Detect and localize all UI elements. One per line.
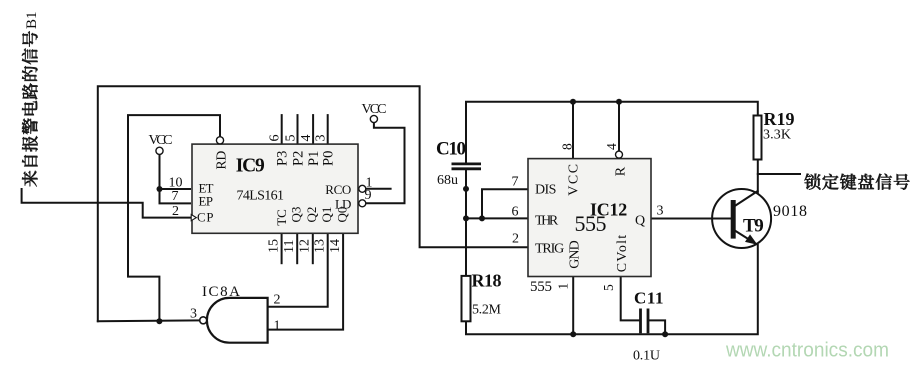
svg-text:15: 15 xyxy=(267,239,282,253)
wire: 555 pin 4 R drop xyxy=(618,102,620,151)
svg-text:3.3K: 3.3K xyxy=(763,128,791,143)
IC9 LD pin circle xyxy=(359,200,366,207)
svg-text:Q1: Q1 xyxy=(319,207,334,223)
svg-text:3: 3 xyxy=(657,204,664,219)
svg-text:B1: B1 xyxy=(24,11,40,29)
svg-text:3: 3 xyxy=(314,135,329,142)
node DIS-THR junction xyxy=(479,215,485,221)
T9 emitter arrow xyxy=(745,234,758,244)
wire: 555 VCC top rail xyxy=(466,102,758,163)
wire: NAND output node to RD loop xyxy=(128,115,220,321)
svg-text:DIS: DIS xyxy=(535,182,556,197)
svg-text:GND: GND xyxy=(567,240,582,268)
wire: IC9 pin 13 (Q1) to NAND input 2 xyxy=(268,233,328,306)
wire: bottom ground rail xyxy=(466,245,758,334)
op-amp U2: NAND gate IC8A (mirrored, output left) xyxy=(207,298,268,343)
svg-text:4: 4 xyxy=(299,135,314,142)
wire: C10 / R18 column xyxy=(465,170,467,276)
svg-text:5: 5 xyxy=(601,284,616,291)
svg-text:7: 7 xyxy=(512,175,519,190)
svg-text:2: 2 xyxy=(512,232,519,247)
wire: keyboard-lock signal output xyxy=(758,173,800,175)
svg-text:7: 7 xyxy=(172,189,179,204)
svg-text:VCC: VCC xyxy=(362,102,387,117)
wire: 555 pin 8 VCC drop xyxy=(572,102,574,159)
wire: IC9 pin 3 (P0) xyxy=(327,115,329,144)
wire: NAND output node up and across top to 555 TRIG xyxy=(98,86,527,321)
op-amp U1: IC9 74LS161 counter body xyxy=(192,144,358,233)
IC9 RD inverter circle xyxy=(216,137,223,144)
svg-text:9018: 9018 xyxy=(773,203,807,220)
wire: IC9 pin 14 (Q0) to NAND input 1 xyxy=(268,233,344,329)
node ground rail GND junction xyxy=(570,331,576,337)
svg-text:5: 5 xyxy=(284,135,299,142)
svg-text:RD: RD xyxy=(213,150,228,169)
svg-text:Q2: Q2 xyxy=(304,207,319,223)
svg-text:VCC: VCC xyxy=(567,164,582,196)
node ET/VCC junction xyxy=(157,186,163,192)
wire: C11 to ground rail xyxy=(649,320,666,334)
svg-text:THR: THR xyxy=(535,214,559,229)
wire: input signal B1 to CP xyxy=(22,189,190,218)
svg-text:IC8A: IC8A xyxy=(202,284,240,300)
wire: LD pin 9 to VCC xyxy=(366,123,405,204)
node NAND output junction xyxy=(156,318,162,324)
svg-text:13: 13 xyxy=(313,239,328,253)
svg-text:Q: Q xyxy=(635,213,645,228)
wire: 555 Q output to T9 base xyxy=(652,218,731,220)
svg-text:T9: T9 xyxy=(743,215,764,236)
svg-text:IC9: IC9 xyxy=(236,156,265,177)
svg-text:ET: ET xyxy=(199,181,214,195)
IC8A output bubble xyxy=(200,317,207,324)
node VCC rail pin8 junction xyxy=(570,99,576,105)
svg-text:TRIG: TRIG xyxy=(535,242,564,257)
wire: 555 pin 1 GND drop xyxy=(572,277,574,335)
node C10-DIS column junction xyxy=(463,186,469,192)
wire: IC9 pin 12 (Q2) stub xyxy=(312,233,314,263)
svg-text:P0: P0 xyxy=(321,151,337,166)
node input label: vertical Chinese text (signal B1 from alarm circuit) xyxy=(22,11,40,186)
svg-text:Q3: Q3 xyxy=(289,207,304,223)
svg-text:555: 555 xyxy=(530,279,552,295)
wire: IC9 pin 4 (P1) xyxy=(312,115,314,144)
svg-text:P1: P1 xyxy=(306,151,322,166)
wire: IC9 pin 6 (P3) xyxy=(281,115,283,144)
svg-text:1: 1 xyxy=(274,319,281,334)
svg-text:www.cntronics.com: www.cntronics.com xyxy=(725,340,889,362)
svg-text:P3: P3 xyxy=(275,151,291,166)
svg-text:11: 11 xyxy=(282,240,297,253)
svg-text:VCC: VCC xyxy=(149,133,173,148)
svg-text:TC: TC xyxy=(274,209,289,226)
svg-text:C11: C11 xyxy=(634,288,664,307)
wire: NAND output horizontal xyxy=(98,319,200,322)
svg-text:CVolt: CVolt xyxy=(615,235,630,272)
resistor R18 xyxy=(462,276,471,321)
svg-text:12: 12 xyxy=(298,239,313,253)
wire: RCO pin 1 stub xyxy=(366,188,391,190)
svg-text:Q0: Q0 xyxy=(334,207,349,223)
svg-text:R18: R18 xyxy=(472,271,502,291)
svg-text:6: 6 xyxy=(512,205,519,220)
wire: THR xyxy=(466,217,527,219)
svg-text:74LS161: 74LS161 xyxy=(237,189,285,204)
wire: IC9 pin 11 (Q3) stub xyxy=(296,233,298,263)
wire: 555 pin 5 CVolt to C11 xyxy=(621,277,640,321)
svg-text:2: 2 xyxy=(172,204,179,219)
svg-text:4: 4 xyxy=(604,143,619,150)
IC12 R pin circle xyxy=(616,151,623,158)
svg-text:3: 3 xyxy=(190,307,197,322)
IC9 clock triangle on CP xyxy=(191,215,196,221)
wire: IC9 pin 5 (P2) xyxy=(297,115,299,144)
svg-text:2: 2 xyxy=(274,293,281,308)
svg-text:R19: R19 xyxy=(764,109,795,129)
wire: DIS hook xyxy=(482,189,527,218)
wire: R19 bottom to collector junction xyxy=(757,160,759,193)
wire: IC9 pin 15 (TC) stub xyxy=(281,233,283,263)
capacitor C11 xyxy=(641,309,649,334)
wire: ET node to EP xyxy=(160,189,191,203)
svg-text:6: 6 xyxy=(268,135,283,142)
svg-text:5.2M: 5.2M xyxy=(472,303,502,318)
node THR junction xyxy=(463,215,469,221)
svg-text:68u: 68u xyxy=(437,173,458,188)
node VCC rail pin4 junction xyxy=(616,99,622,105)
svg-text:8: 8 xyxy=(560,143,575,150)
svg-text:555: 555 xyxy=(575,211,607,236)
resistor R19 xyxy=(754,116,762,160)
node ground rail C11 junction xyxy=(662,331,668,337)
transistor Q1: T9 9018 NPN xyxy=(712,189,771,248)
svg-text:CP: CP xyxy=(197,211,214,225)
svg-text:0.1U: 0.1U xyxy=(633,348,660,363)
svg-text:C10: C10 xyxy=(436,139,466,160)
svg-text:1: 1 xyxy=(556,283,571,290)
capacitor C10 xyxy=(452,164,482,169)
svg-text:P2: P2 xyxy=(290,151,306,166)
op-amp U3: IC12 555 timer body xyxy=(528,159,651,277)
wire: VCC stem to ET xyxy=(160,154,191,189)
svg-text:EP: EP xyxy=(199,195,214,209)
svg-text:RCO: RCO xyxy=(325,182,351,197)
node output label: Chinese text (keyboard lock signal) xyxy=(804,174,909,190)
IC9 RCO pin circle xyxy=(359,185,366,192)
svg-text:R: R xyxy=(614,166,629,176)
svg-text:14: 14 xyxy=(328,239,343,253)
